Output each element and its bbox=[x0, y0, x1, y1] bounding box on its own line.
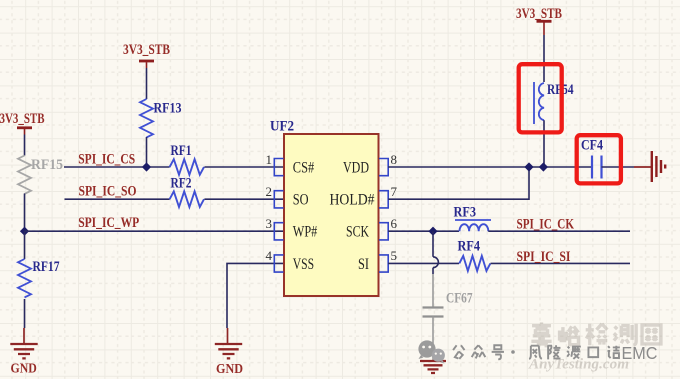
pin 3 WP# bbox=[266, 216, 318, 241]
svg-text:HOLD#: HOLD# bbox=[330, 192, 375, 209]
svg-text:SPI_IC_CS: SPI_IC_CS bbox=[78, 151, 135, 167]
svg-text:WP#: WP# bbox=[293, 224, 318, 241]
pin 4 VSS bbox=[266, 248, 315, 273]
svg-text:3V3_STB: 3V3_STB bbox=[0, 111, 45, 127]
svg-text:2: 2 bbox=[266, 184, 273, 199]
wire RF13 to CS net bbox=[146, 137, 148, 167]
wire pin8 VDD to CF4 bbox=[388, 166, 592, 168]
wire SPI_IC_CS left bbox=[64, 166, 170, 168]
wire RF3 to SPI_IC_CK bbox=[488, 230, 630, 232]
svg-text:3V3_STB: 3V3_STB bbox=[516, 6, 562, 22]
IC UF2 bbox=[270, 118, 379, 296]
node junction SCK/CF67 bbox=[428, 227, 437, 236]
wire CF4 to earth bbox=[602, 166, 635, 168]
svg-text:SO: SO bbox=[293, 192, 309, 209]
resistor RF4 bbox=[458, 238, 491, 271]
wire CF67 to ground bbox=[432, 317, 434, 362]
svg-text:RF4: RF4 bbox=[458, 238, 481, 254]
capacitor CF67 (not fitted, gray) bbox=[423, 290, 473, 316]
logo wechat bubbles bbox=[418, 340, 445, 363]
svg-text:4: 4 bbox=[266, 248, 273, 263]
svg-text:CF4: CF4 bbox=[581, 137, 603, 153]
pin 1 CS# bbox=[266, 152, 315, 177]
resistor RF17 bbox=[18, 259, 60, 297]
svg-text:5: 5 bbox=[391, 248, 398, 263]
resistor RF1 bbox=[170, 143, 204, 175]
node junction CS/RF13 bbox=[142, 162, 151, 171]
svg-text:SPI_IC_SI: SPI_IC_SI bbox=[517, 249, 571, 265]
node junction HOLD riser bbox=[524, 162, 533, 171]
pin 5 SI bbox=[358, 248, 397, 273]
wire VSS pin4 to ground bbox=[227, 263, 284, 328]
svg-text:8: 8 bbox=[391, 152, 398, 167]
svg-text:3V3_STB: 3V3_STB bbox=[123, 42, 170, 58]
ground GND (left) bbox=[10, 328, 37, 377]
svg-text:GND: GND bbox=[216, 362, 243, 377]
resistor RF15 (not fitted, gray) bbox=[18, 156, 63, 194]
inductor RF54 (ferrite bead) bbox=[534, 82, 574, 124]
svg-text:RF17: RF17 bbox=[33, 259, 60, 275]
wire 3V3 to RF13 bbox=[146, 68, 148, 99]
wire SPI_IC_SO left bbox=[65, 198, 170, 200]
highlight box around RF54 bbox=[519, 64, 562, 132]
svg-text:VSS: VSS bbox=[293, 256, 314, 273]
svg-text:RF2: RF2 bbox=[171, 175, 192, 191]
wire left rail lower bbox=[24, 231, 26, 259]
pin 8 VDD bbox=[343, 152, 397, 177]
svg-text:SPI_IC_SO: SPI_IC_SO bbox=[79, 183, 137, 199]
svg-text:CS#: CS# bbox=[293, 160, 314, 177]
wire pin6 SCK to junction bbox=[388, 230, 459, 232]
highlight box around CF4 bbox=[577, 135, 621, 183]
svg-text:SPI_IC_WP: SPI_IC_WP bbox=[78, 215, 139, 231]
svg-text:1: 1 bbox=[266, 152, 273, 167]
svg-text:SI: SI bbox=[358, 256, 369, 273]
node junction left rail / SPI_IC_WP bbox=[20, 227, 29, 236]
svg-text:EMC: EMC bbox=[622, 343, 658, 363]
wire pin5 SI to RF4 bbox=[388, 262, 459, 264]
svg-text:VDD: VDD bbox=[343, 160, 369, 177]
svg-text:RF1: RF1 bbox=[171, 143, 192, 159]
watermark text 公众号·风陵渡口话EMC bbox=[453, 345, 620, 359]
power port 3V3_STB (left rail) bbox=[0, 111, 45, 135]
svg-text:SPI_IC_CK: SPI_IC_CK bbox=[517, 217, 575, 233]
power port 3V3_STB (top right) bbox=[516, 6, 562, 35]
capacitor CF4 bbox=[581, 137, 603, 178]
pin 2 SO bbox=[266, 184, 309, 209]
svg-text:7: 7 bbox=[391, 184, 398, 199]
svg-text:RF3: RF3 bbox=[454, 204, 477, 220]
wire left rail mid bbox=[24, 194, 26, 232]
wire RF17 to ground bbox=[24, 299, 26, 328]
wire RF54 to VDD net bbox=[543, 120, 545, 167]
wire pin7 HOLD# riser bbox=[388, 167, 529, 199]
wire 3V3 to RF54 bbox=[543, 35, 545, 82]
pin 7 HOLD# bbox=[330, 184, 398, 209]
node junction RF54 bbox=[539, 162, 548, 171]
ground GND (under CF67) bbox=[420, 361, 446, 373]
pin 6 SCK bbox=[346, 216, 398, 241]
svg-text:UF2: UF2 bbox=[270, 118, 294, 134]
wire RF1 to pin1 bbox=[204, 166, 284, 168]
wire left rail top bbox=[24, 135, 26, 156]
svg-text:SCK: SCK bbox=[346, 224, 369, 241]
svg-text:GND: GND bbox=[11, 362, 37, 377]
ground GND (under IC) bbox=[215, 328, 243, 377]
resistor RF2 bbox=[170, 175, 204, 207]
watermark big text 嘉峪检测网 bbox=[531, 322, 661, 347]
svg-text:RF15: RF15 bbox=[31, 157, 63, 173]
wire SPI_IC_WP bbox=[25, 230, 285, 232]
ground earth (right of CF4) bbox=[652, 151, 665, 182]
power port 3V3_STB (RF13 branch) bbox=[123, 42, 170, 68]
wire RF2 to pin2 bbox=[204, 198, 284, 200]
wire RF4 to SPI_IC_SI bbox=[491, 262, 631, 264]
svg-text:6: 6 bbox=[391, 216, 398, 231]
svg-text:CF67: CF67 bbox=[446, 290, 473, 306]
inductor RF3 (ferrite bead) bbox=[454, 204, 492, 231]
svg-text:RF13: RF13 bbox=[154, 101, 182, 117]
svg-text:3: 3 bbox=[266, 216, 273, 231]
wire junction to CF67 bbox=[432, 231, 434, 257]
resistor RF13 bbox=[140, 99, 182, 137]
